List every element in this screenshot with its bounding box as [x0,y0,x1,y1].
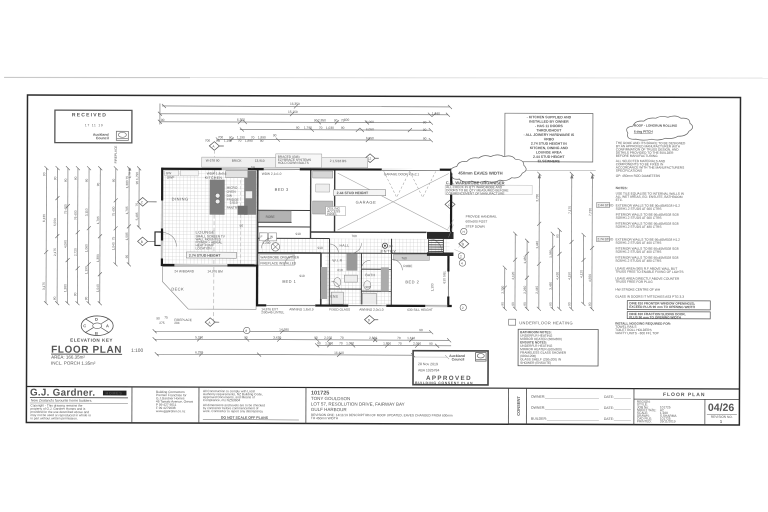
svg-text:2,070: 2,070 [324,336,332,340]
svg-text:TRUSS FREE FOR PLUG: TRUSS FREE FOR PLUG [615,280,653,284]
svg-text:HW STROKE CENTRE OF WH: HW STROKE CENTRE OF WH [615,288,661,292]
svg-text:ENTRY: ENTRY [380,249,396,254]
svg-text:90: 90 [84,296,88,300]
svg-text:28 Nov 2019: 28 Nov 2019 [418,362,438,366]
svg-text:BUILDER:: BUILDER: [531,417,547,421]
svg-text:70: 70 [340,336,344,340]
svg-text:3,175: 3,175 [42,282,46,290]
svg-text:work. Contractor to report any: work. Contractor to report any discrepan… [203,409,263,413]
svg-text:2.74 STUD HEIGHT: 2.74 STUD HEIGHT [189,254,221,258]
svg-text:90: 90 [53,296,57,300]
svg-text:90: 90 [240,224,244,228]
svg-text:70: 70 [238,139,242,143]
svg-text:DP: DP [251,166,255,170]
svg-text:BUILDING CONSENT PLAN: BUILDING CONSENT PLAN [415,381,473,385]
svg-text:04/26: 04/26 [708,402,734,414]
svg-text:2,730: 2,730 [501,285,505,293]
svg-text:90: 90 [85,178,89,182]
svg-text:7,170: 7,170 [568,206,572,214]
svg-text:STEP DOWN: STEP DOWN [466,225,486,229]
svg-text:2,850: 2,850 [318,118,326,122]
svg-text:GULF HARBOUR: GULF HARBOUR [311,407,348,412]
svg-text:1,080: 1,080 [549,250,553,258]
svg-text:6,050: 6,050 [366,136,374,140]
svg-text:90: 90 [42,172,46,176]
svg-text:90: 90 [112,179,116,183]
svg-text:90: 90 [161,118,165,122]
svg-text:2: 2 [462,306,464,310]
svg-text:90: 90 [53,176,57,180]
svg-text:B: B [462,242,464,246]
svg-text:450mm EAVES WIDTH: 450mm EAVES WIDTH [458,171,502,176]
svg-text:ALL WET AREAS, EG: ENSUITE, BA: ALL WET AREAS, EG: ENSUITE, BATHROOM [616,195,683,199]
svg-text:90: 90 [74,176,78,180]
svg-text:OP: 450mm ROD DIAMETERS: OP: 450mm ROD DIAMETERS [616,174,660,178]
svg-text:90: 90 [73,292,77,296]
svg-text:1,790: 1,790 [304,126,312,130]
svg-text:UNDERFLOOR HEATING: UNDERFLOOR HEATING [519,320,573,325]
svg-text:16,410: 16,410 [334,351,344,355]
svg-text:WDW 1,8x0.6: WDW 1,8x0.6 [207,172,227,176]
svg-text:1,190: 1,190 [224,139,232,143]
svg-text:75: 75 [111,237,115,241]
svg-text:1,480: 1,480 [523,256,527,264]
svg-text:90: 90 [556,234,560,238]
svg-text:2,090: 2,090 [413,342,421,346]
svg-text:1,380: 1,380 [63,284,67,292]
svg-text:75: 75 [135,203,139,207]
svg-text:ELEVATION KEY: ELEVATION KEY [70,338,113,343]
svg-text:VANITY UNITS - 800 FFL TOP: VANITY UNITS - 800 FFL TOP [615,331,659,335]
svg-text:2,510: 2,510 [230,201,238,205]
svg-text:8: 8 [245,329,247,333]
svg-text:LOT 57, RESOLUTION DRIVE, FAIR: LOT 57, RESOLUTION DRIVE, FAIRWAY BAY [311,401,405,406]
svg-text:1,040: 1,040 [96,284,100,292]
svg-text:90: 90 [216,139,220,143]
svg-text:AWNING 1,8x0.9: AWNING 1,8x0.9 [289,307,314,311]
svg-text:14,976 BM: 14,976 BM [207,269,223,273]
svg-text:14,280: 14,280 [279,328,289,332]
svg-text:90: 90 [567,302,571,306]
svg-text:700: 700 [205,139,211,143]
svg-text:SG8/H1.2 STUDS AT 600 CTRS: SG8/H1.2 STUDS AT 600 CTRS [616,216,662,220]
svg-text:AWNING 2,0x1.0: AWNING 2,0x1.0 [359,308,384,312]
svg-text:1,000: 1,000 [325,341,333,345]
svg-text:90 1,790: 90 1,790 [135,172,139,185]
svg-text:12: 12 [368,157,372,161]
svg-text:15,160: 15,160 [288,110,298,114]
svg-text:2,175: 2,175 [53,248,57,256]
svg-text:RECEIVED: RECEIVED [72,112,107,118]
svg-text:90: 90 [96,182,100,186]
svg-text:75: 75 [164,315,168,319]
svg-text:BED 3: BED 3 [275,187,289,192]
svg-text:GARAGE DOOR 4.8x2.1: GARAGE DOOR 4.8x2.1 [384,172,420,176]
svg-text:ROBE: ROBE [403,264,412,268]
svg-text:204: 204 [174,321,180,325]
svg-text:SHOWER (ENSUITE): SHOWER (ENSUITE) [520,361,551,365]
svg-text:90: 90 [389,244,393,248]
svg-text:1,79 90: 1,79 90 [128,167,132,178]
svg-text:PANEL: PANEL [327,212,337,216]
svg-text:90: 90 [244,336,248,340]
svg-text:TO 450mm WIDTH: TO 450mm WIDTH [311,416,339,420]
svg-text:SG8/H1.2 STUDS AT 480 CTRS: SG8/H1.2 STUDS AT 480 CTRS [615,259,661,263]
svg-text:4,090: 4,090 [63,240,67,248]
svg-text:6,130: 6,130 [42,214,46,222]
svg-text:TONY GOULDSON: TONY GOULDSON [311,396,350,401]
svg-text:F: F [260,235,262,239]
svg-text:TRUSS FREE TO ENABLE FIXING OF: TRUSS FREE TO ENABLE FIXING OF LIGHTS [615,270,683,274]
svg-text:SG8/H1.2 STUDS AT 400 CTRS: SG8/H1.2 STUDS AT 400 CTRS [615,250,661,254]
svg-text:PANTRY: PANTRY [227,206,241,210]
svg-text:1,610: 1,610 [407,336,415,340]
svg-text:DO NOT SCALE OFF PLANS: DO NOT SCALE OFF PLANS [221,416,269,420]
svg-text:90: 90 [296,126,300,130]
svg-text:2,260: 2,260 [523,286,527,294]
svg-text:ABA 1025784: ABA 1025784 [418,368,439,372]
svg-text:OWNER:: OWNER: [531,395,545,399]
svg-text:6,290: 6,290 [195,350,203,354]
svg-text:1,240: 1,240 [432,112,440,116]
svg-text:G.J. Gardner.: G.J. Gardner. [30,388,95,399]
svg-text:ELSEWHERE: ELSEWHERE [538,159,561,163]
svg-text:90: 90 [511,302,515,306]
svg-text:75 400: 75 400 [112,206,116,216]
svg-text:2.74 STUD: 2.74 STUD [597,237,613,241]
svg-text:New Zealand's favourite home b: New Zealand's favourite home builders. [31,399,92,403]
svg-text:A: A [106,323,109,328]
svg-text:1,040: 1,040 [111,242,115,250]
svg-text:900: 900 [365,285,371,289]
svg-text:1,000: 1,000 [346,341,354,345]
svg-text:90: 90 [423,120,427,124]
svg-text:in part without written permis: in part without written permission. [30,416,77,420]
svg-text:2.44 STUD: 2.44 STUD [598,203,614,207]
svg-text:BED 1: BED 1 [282,279,296,284]
svg-text:90: 90 [588,302,592,306]
svg-text:1,795: 1,795 [125,206,129,214]
svg-text:3,110: 3,110 [85,208,89,216]
svg-text:610: 610 [337,268,343,272]
svg-text:W 678 90: W 678 90 [206,159,220,163]
svg-text:LOCATION: LOCATION [195,246,212,250]
svg-text:3,780: 3,780 [535,194,539,202]
svg-text:BED 2: BED 2 [405,279,419,284]
svg-text:90: 90 [341,126,345,130]
svg-text:NOTES:: NOTES: [616,186,628,190]
svg-text:GLASS IN DOORS IT MITSCHIES AS: GLASS IN DOORS IT MITSCHIES AS3 PTG 3.3 [615,295,684,299]
svg-text:5,260: 5,260 [195,335,203,339]
svg-text:1:100: 1:100 [131,348,143,354]
svg-text:B: B [95,331,98,336]
svg-text:275: 275 [159,321,165,325]
svg-text:KITCHEN: KITCHEN [205,176,223,180]
svg-text:INCL. PORCH 1.35m²: INCL. PORCH 1.35m² [51,361,96,366]
svg-text:90: 90 [125,255,129,259]
svg-text:BRICK: BRICK [232,159,243,163]
svg-text:1,030: 1,030 [326,126,334,130]
svg-text:GWP: GWP [167,175,175,179]
svg-text:Council: Council [96,136,109,140]
svg-text:4: 4 [461,262,463,266]
svg-text:BATH: BATH [365,273,375,277]
svg-text:2,720: 2,720 [73,248,77,256]
svg-text:2 1,5/18 BS: 2 1,5/18 BS [330,159,347,163]
svg-text:910: 910 [317,246,323,250]
svg-text:90: 90 [64,178,68,182]
svg-text:1,800: 1,800 [383,342,391,346]
svg-text:1,190: 1,190 [84,266,88,274]
svg-text:W.I.R: W.I.R [332,259,342,263]
svg-text:90: 90 [156,316,160,320]
svg-text:SG8/H1.2 STUDS AT 480 CTRS: SG8/H1.2 STUDS AT 480 CTRS [616,225,662,229]
svg-text:610 SILL: 610 SILL [442,270,446,283]
svg-text:90: 90 [260,139,264,143]
svg-text:5,550: 5,550 [53,218,57,226]
svg-text:Council: Council [452,357,465,361]
svg-text:FIREPLACE INSTALLED: FIREPLACE INSTALLED [260,261,296,265]
svg-text:SG8/H1.2 STUDS AT 600 CTRS: SG8/H1.2 STUDS AT 600 CTRS [616,207,662,211]
svg-text:6,060: 6,060 [366,120,374,124]
svg-text:90: 90 [419,328,423,332]
svg-text:6,050: 6,050 [366,127,374,131]
svg-text:ETC.: ETC. [616,198,623,202]
svg-text:OWNER:: OWNER: [531,406,545,410]
svg-text:HALL: HALL [339,244,349,248]
svg-text:600: 600 [344,118,350,122]
svg-text:16,350: 16,350 [290,102,300,106]
svg-text:2/90x45 LINTEL: 2/90x45 LINTEL [261,310,284,314]
svg-text:630 SILL HEIGHT: 630 SILL HEIGHT [407,308,433,312]
svg-text:70: 70 [339,341,343,345]
svg-text:6 deg PITCH: 6 deg PITCH [634,130,653,134]
svg-text:FLOOR PLAN: FLOOR PLAN [663,392,706,398]
svg-text:1,200: 1,200 [262,241,270,245]
svg-text:HOLD DOWN BOLTS: HOLD DOWN BOLTS [278,161,309,165]
svg-text:90: 90 [314,336,318,340]
svg-text:PRINTED:: PRINTED: [637,419,652,423]
svg-text:90: 90 [423,128,427,132]
svg-text:DATE:: DATE: [604,417,614,421]
svg-text:ROOF - LONGRUN ROLLING: ROOF - LONGRUN ROLLING [634,124,678,128]
svg-text:760: 760 [352,234,358,238]
svg-text:1,890: 1,890 [245,139,253,143]
svg-text:910: 910 [296,232,302,236]
svg-text:B: B [141,240,143,244]
svg-text:4,430: 4,430 [555,272,559,280]
svg-text:90: 90 [334,118,338,122]
svg-text:GARAGE: GARAGE [356,200,377,205]
svg-text:600x600 POST: 600x600 POST [466,220,488,224]
svg-text:70: 70 [398,342,402,346]
svg-text:ENS: ENS [330,295,338,299]
svg-text:90: 90 [423,137,427,141]
svg-text:PLUS 90 mm TO OPENING WIDTH: PLUS 90 mm TO OPENING WIDTH [629,315,681,319]
svg-text:26/11/2019: 26/11/2019 [660,419,676,423]
svg-text:4,120: 4,120 [579,270,583,278]
svg-text:2: 2 [460,255,462,259]
svg-text:5,485: 5,485 [135,212,139,220]
svg-text:910: 910 [299,274,305,278]
svg-text:EXCEED PLUS 90 mm TO OPENING W: EXCEED PLUS 90 mm TO OPENING WIDTH [629,305,695,309]
svg-text:DINING: DINING [172,197,189,202]
svg-text:90: 90 [429,342,433,346]
svg-text:90: 90 [523,302,527,306]
svg-text:6,300: 6,300 [237,118,245,122]
svg-text:PROVIDE HANDRAIL: PROVIDE HANDRAIL [466,215,498,219]
svg-text:4,550: 4,550 [588,274,592,282]
svg-text:90: 90 [501,302,505,306]
svg-text:75 400: 75 400 [64,204,68,214]
svg-text:2,860: 2,860 [369,336,377,340]
svg-text:1,795: 1,795 [96,216,100,224]
svg-text:DATE:: DATE: [604,395,614,399]
svg-text:FIXED GLASS: FIXED GLASS [329,308,350,312]
svg-text:70: 70 [397,336,401,340]
svg-text:4,120: 4,120 [511,271,515,279]
svg-text:SPECIFICATIONS: SPECIFICATIONS [616,169,642,173]
svg-text:3,430: 3,430 [273,336,281,340]
svg-text:ROBE: ROBE [266,215,275,219]
svg-text:1,060: 1,060 [84,244,88,252]
svg-text:FIREPLACE: FIREPLACE [114,146,118,164]
svg-text:C: C [83,323,86,328]
svg-text:COMMENCEMENT OF MANUFACTURE: COMMENCEMENT OF MANUFACTURE [446,191,504,195]
svg-text:HOMES: HOMES [105,391,122,395]
svg-text:www.gjgardner.co.nz: www.gjgardner.co.nz [156,409,186,413]
svg-text:76 400: 76 400 [74,210,78,220]
svg-text:13,910: 13,910 [255,159,265,163]
svg-text:760: 760 [401,256,407,260]
svg-text:2,440: 2,440 [535,286,539,294]
svg-text:90: 90 [549,302,553,306]
svg-text:3,480: 3,480 [549,282,553,290]
svg-text:1,440: 1,440 [535,241,539,249]
svg-text:DECK: DECK [171,287,184,292]
svg-text:90: 90 [317,341,321,345]
svg-text:WDW 2,1x1.0: WDW 2,1x1.0 [262,172,282,176]
svg-text:Compliance, ms NZS3604: Compliance, ms NZS3604 [203,398,240,402]
svg-text:AREA: 166.35m²: AREA: 166.35m² [51,355,85,360]
svg-text:BEFORE MANUFACTURING: BEFORE MANUFACTURING [616,154,658,158]
svg-text:1,100: 1,100 [430,283,434,291]
svg-text:70: 70 [319,126,323,130]
svg-text:CONSENT: CONSENT [516,396,521,416]
svg-text:DATE:: DATE: [604,406,614,410]
svg-text:D: D [95,317,98,322]
svg-text:1,085: 1,085 [125,232,129,240]
svg-text:2.44 STUD HEIGHT: 2.44 STUD HEIGHT [337,191,369,195]
svg-text:7,730: 7,730 [588,208,592,216]
svg-text:4,150: 4,150 [567,272,571,280]
svg-text:1,380: 1,380 [96,254,100,262]
svg-text:17 11 19: 17 11 19 [85,123,104,127]
svg-text:24 W/BOARD: 24 W/BOARD [174,269,194,273]
svg-text:90: 90 [273,133,277,137]
svg-text:SG8/H1.2 STUDS AT 400 CTRS: SG8/H1.2 STUDS AT 400 CTRS [615,241,661,245]
